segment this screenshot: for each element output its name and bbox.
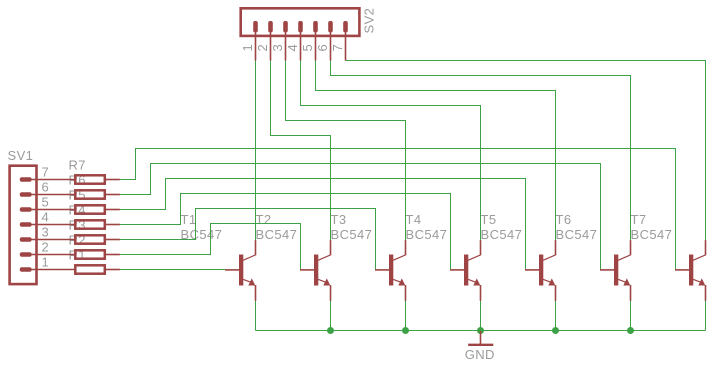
transistor T3 collector <box>393 240 406 260</box>
SV1 pin 3 <box>20 237 75 242</box>
wire net SV2.4 to T4 collector <box>301 61 481 241</box>
svg-text:BC547: BC547 <box>631 227 673 242</box>
resistor R1 right lead <box>106 269 120 271</box>
wire T6 emitter to GND bus <box>630 301 632 331</box>
wire T1 emitter to GND bus <box>255 301 257 331</box>
transistor T6 base bar <box>614 255 618 286</box>
transistor T7 base bar <box>689 255 693 286</box>
wire T2 emitter to GND bus <box>330 301 332 331</box>
svg-text:1: 1 <box>42 255 50 270</box>
SV2 pin 1 <box>253 21 258 61</box>
transistor T6 emitter with arrow <box>618 278 631 300</box>
junction at T4 emitter on GND bus <box>477 327 484 334</box>
wire net R6 to T6 base <box>120 164 601 270</box>
svg-text:SV1: SV1 <box>8 148 34 163</box>
SV2 pin 3 <box>283 21 288 61</box>
wire GND bus <box>256 330 706 332</box>
wire net SV2.1 to T1 collector <box>255 61 257 241</box>
transistor T3 emitter with arrow <box>393 278 406 300</box>
transistor T1 base lead <box>225 269 240 271</box>
wire net R4 to T4 base <box>120 194 451 270</box>
resistor R3 right lead <box>106 239 120 241</box>
transistor T2 emitter with arrow <box>318 278 331 300</box>
svg-text:BC547: BC547 <box>556 227 598 242</box>
svg-text:7: 7 <box>42 165 50 180</box>
transistor T5 base bar <box>539 255 543 286</box>
svg-text:3: 3 <box>42 225 50 240</box>
SV1 pin 2 <box>20 252 75 257</box>
SV1 pin 4 <box>20 222 75 227</box>
transistor T7 emitter with arrow <box>693 278 706 300</box>
SV2 pin 7 <box>343 21 348 61</box>
transistor T7 collector <box>693 240 706 260</box>
wire net R3 to T3 base <box>120 209 376 270</box>
svg-text:R7: R7 <box>69 158 86 173</box>
GND symbol wire <box>480 331 482 344</box>
wire net SV2.2 to T2 collector <box>271 61 331 241</box>
wire net SV2.3 to T3 collector <box>286 61 406 241</box>
wire net SV2.7 to T7 collector <box>346 61 706 241</box>
SV1 pin 7 <box>20 177 75 182</box>
resistor R5 body <box>75 205 105 213</box>
transistor T4 emitter with arrow <box>468 278 481 300</box>
transistor T1 emitter with arrow <box>243 278 256 300</box>
resistor R3 body <box>75 235 105 243</box>
wire T3 emitter to GND bus <box>405 301 407 331</box>
transistor T5 emitter with arrow <box>543 278 556 300</box>
transistor T1 collector <box>243 240 256 260</box>
resistor R5 right lead <box>106 209 120 211</box>
svg-text:5: 5 <box>300 44 315 52</box>
svg-text:BC547: BC547 <box>331 227 373 242</box>
resistor R7 right lead <box>106 179 120 181</box>
svg-text:T5: T5 <box>481 212 497 227</box>
svg-text:1: 1 <box>240 44 255 52</box>
svg-text:BC547: BC547 <box>481 227 523 242</box>
svg-text:3: 3 <box>270 44 285 52</box>
transistor T5 collector <box>543 240 556 260</box>
svg-text:5: 5 <box>42 195 50 210</box>
junction at T3 emitter on GND bus <box>402 327 409 334</box>
resistor R7 body <box>75 175 105 183</box>
transistor T6 base lead <box>600 269 615 271</box>
transistor T1 base bar <box>239 255 243 286</box>
resistor R6 right lead <box>106 194 120 196</box>
transistor T2 base bar <box>314 255 318 286</box>
SV2 pin 4 <box>298 21 303 61</box>
wire net R2 to T2 base <box>120 224 301 270</box>
SV2 pin 5 <box>313 21 318 61</box>
svg-text:BC547: BC547 <box>256 227 298 242</box>
resistor R4 right lead <box>106 224 120 226</box>
SV1 pin 5 <box>20 207 75 212</box>
svg-text:T7: T7 <box>631 212 647 227</box>
svg-text:SV2: SV2 <box>362 8 377 34</box>
resistor R4 body <box>75 220 105 228</box>
resistor R1 body <box>75 265 105 273</box>
svg-text:T2: T2 <box>256 212 272 227</box>
transistor T3 base lead <box>375 269 390 271</box>
transistor T6 collector <box>618 240 631 260</box>
svg-text:4: 4 <box>42 210 50 225</box>
SV2 pin 2 <box>268 21 273 61</box>
svg-text:4: 4 <box>285 44 300 52</box>
SV2 pin 6 <box>328 21 333 61</box>
svg-text:7: 7 <box>330 44 345 52</box>
transistor T7 base lead <box>675 269 690 271</box>
svg-text:6: 6 <box>42 180 50 195</box>
resistor R2 right lead <box>106 254 120 256</box>
transistor T4 collector <box>468 240 481 260</box>
junction at T2 emitter on GND bus <box>327 327 334 334</box>
transistor T2 base lead <box>300 269 315 271</box>
SV1 pin 1 <box>20 267 75 272</box>
svg-text:T4: T4 <box>406 212 422 227</box>
wire net R1 to T1 base <box>120 269 226 271</box>
svg-text:2: 2 <box>255 44 270 52</box>
wire T7 emitter to GND bus <box>705 301 707 331</box>
svg-text:T3: T3 <box>331 212 347 227</box>
svg-text:BC547: BC547 <box>406 227 448 242</box>
transistor T4 base lead <box>450 269 465 271</box>
wire T4 emitter to GND bus <box>480 301 482 331</box>
wire net SV2.5 to T5 collector <box>316 61 556 241</box>
resistor R6 body <box>75 190 105 198</box>
wire net R5 to T5 base <box>120 179 526 270</box>
svg-text:2: 2 <box>42 240 50 255</box>
wire T5 emitter to GND bus <box>555 301 557 331</box>
junction at T5 emitter on GND bus <box>552 327 559 334</box>
transistor T3 base bar <box>389 255 393 286</box>
SV1 pin 6 <box>20 192 75 197</box>
connector SV2 body <box>241 8 360 36</box>
wire net R7 to T7 base <box>120 149 676 270</box>
junction at T6 emitter on GND bus <box>627 327 634 334</box>
GND symbol bar <box>468 344 493 346</box>
svg-text:T6: T6 <box>556 212 572 227</box>
svg-text:6: 6 <box>315 44 330 52</box>
wire net SV2.6 to T6 collector <box>331 61 631 241</box>
svg-text:GND: GND <box>465 347 495 362</box>
connector SV1 body <box>10 166 37 284</box>
svg-text:T1: T1 <box>181 212 197 227</box>
transistor T2 collector <box>318 240 331 260</box>
transistor T5 base lead <box>525 269 540 271</box>
resistor R2 body <box>75 250 105 258</box>
transistor T4 base bar <box>464 255 468 286</box>
